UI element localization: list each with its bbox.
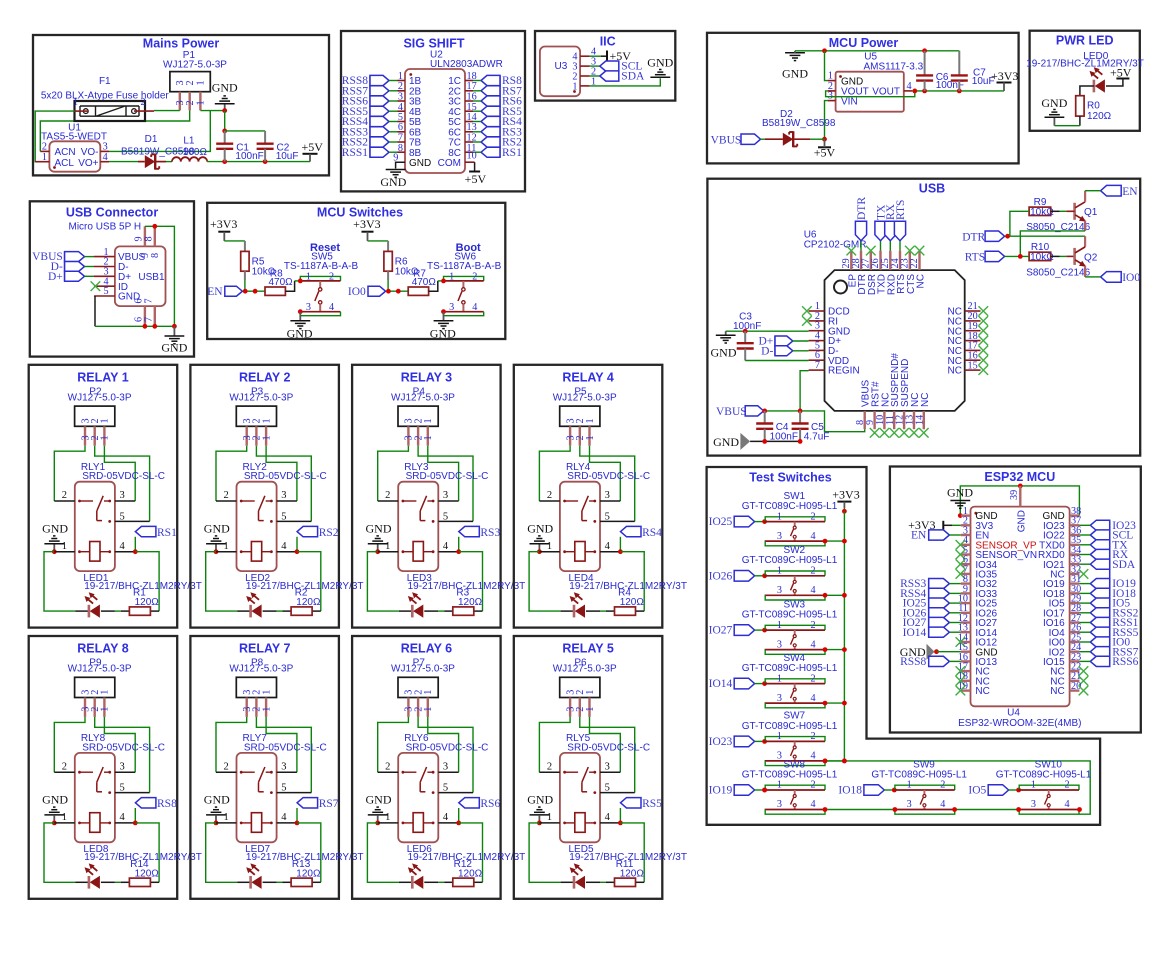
svg-text:R0: R0 — [1087, 101, 1100, 112]
svg-text:RS2: RS2 — [319, 527, 339, 539]
wire — [438, 280, 444, 282]
wire — [389, 141, 398, 143]
svg-text:GT-TC089C-H095-L1: GT-TC089C-H095-L1 — [742, 610, 838, 621]
section RELAY 4 — [514, 365, 663, 628]
junction — [222, 159, 227, 164]
wire — [295, 280, 301, 282]
svg-text:GND: GND — [947, 486, 973, 500]
section ESP32 MCU — [890, 467, 1141, 733]
wire — [793, 350, 809, 352]
wire — [94, 296, 96, 326]
svg-text:NC: NC — [1050, 686, 1064, 697]
wire — [1079, 534, 1090, 536]
svg-text:1: 1 — [547, 541, 552, 552]
svg-text:GT-TC089C-H095-L1: GT-TC089C-H095-L1 — [742, 721, 838, 732]
wire — [529, 823, 561, 882]
svg-text:SRD-05VDC-SL-C: SRD-05VDC-SL-C — [567, 471, 650, 482]
wire — [216, 446, 247, 501]
RLY5 contacts — [563, 771, 566, 774]
wire — [54, 500, 75, 502]
resistor R7 470 — [408, 287, 428, 295]
U3 pin 2 — [580, 75, 590, 77]
wire — [1085, 276, 1101, 278]
no-connect X — [956, 676, 966, 686]
wire — [224, 131, 226, 144]
svg-text:2: 2 — [385, 490, 390, 501]
svg-text:EN: EN — [207, 286, 223, 298]
P5 pin 3 — [569, 426, 571, 445]
svg-text:ACN: ACN — [55, 147, 76, 158]
connector USB1 — [115, 246, 166, 306]
net flag IO5 — [1090, 598, 1109, 608]
wire — [367, 823, 399, 882]
svg-text:RTS: RTS — [965, 252, 985, 264]
svg-text:2: 2 — [811, 566, 816, 577]
U6 pin 19 NC — [965, 330, 981, 332]
wire — [115, 881, 121, 883]
U2 pin 5 (5B) / net RSS4 — [370, 116, 389, 126]
wire — [620, 823, 644, 882]
wire — [429, 281, 438, 291]
wire — [761, 138, 766, 140]
wire — [539, 771, 560, 773]
wire — [924, 81, 926, 91]
wire — [206, 552, 238, 611]
net flag RSS5 — [1090, 627, 1109, 637]
wire — [1079, 641, 1090, 643]
junction — [823, 539, 828, 544]
wire — [795, 50, 959, 52]
wire — [424, 881, 438, 883]
wire — [600, 822, 620, 824]
wire — [458, 537, 460, 552]
section RELAY 3 — [352, 365, 501, 628]
junction — [958, 513, 963, 518]
U4 pin 2 3V3 — [961, 524, 971, 526]
svg-text:4: 4 — [811, 799, 816, 810]
wire — [54, 446, 85, 501]
no-connect X — [956, 569, 966, 579]
U4 pin 21 NC — [1070, 680, 1080, 682]
svg-text:2: 2 — [62, 490, 67, 501]
wire — [1079, 524, 1090, 526]
svg-text:4: 4 — [443, 541, 449, 552]
wire — [912, 90, 1004, 92]
svg-text:MCU Power: MCU Power — [829, 36, 899, 50]
junction — [743, 329, 748, 334]
U4 pin 12 IO27 — [961, 621, 971, 623]
svg-text:3: 3 — [120, 490, 125, 501]
USB1 pin 3 D+ — [94, 275, 115, 277]
junction — [396, 289, 401, 294]
wire — [843, 511, 845, 761]
net flag EN — [929, 530, 950, 540]
svg-text:2: 2 — [811, 620, 816, 631]
P3 pin 3 — [245, 426, 247, 445]
wire — [473, 100, 481, 102]
wire — [277, 520, 312, 522]
junction — [537, 549, 542, 554]
U6 pin 11 SUSPEND# — [893, 411, 895, 429]
wire — [389, 100, 398, 102]
no-connect X — [979, 306, 989, 316]
wire — [428, 717, 459, 772]
svg-text:RS3: RS3 — [480, 527, 500, 539]
svg-text:2: 2 — [811, 731, 816, 742]
svg-text:100nF: 100nF — [235, 151, 263, 162]
wire — [76, 610, 89, 612]
U6 pin 2 RI — [809, 320, 825, 322]
svg-text:2: 2 — [329, 271, 334, 282]
wire — [600, 771, 620, 773]
wire — [825, 540, 844, 542]
svg-text:4: 4 — [1065, 799, 1070, 810]
wire — [54, 717, 85, 772]
no-connect X — [802, 306, 812, 316]
no-connect X — [979, 336, 989, 346]
svg-text:1: 1 — [423, 418, 434, 423]
wire — [237, 881, 250, 883]
wire — [800, 371, 809, 411]
wire — [95, 446, 150, 522]
wire — [937, 651, 961, 653]
svg-text:4: 4 — [605, 812, 611, 823]
svg-text:GT-TC089C-H095-L1: GT-TC089C-H095-L1 — [742, 555, 838, 566]
wire — [399, 881, 412, 883]
wire — [438, 771, 458, 773]
U4 pin 5 SENSOR_VN — [961, 553, 971, 555]
wire — [765, 541, 825, 546]
svg-text:USB1: USB1 — [138, 272, 165, 283]
RLY8 contacts — [78, 771, 81, 774]
wire — [1060, 210, 1067, 212]
junction — [243, 289, 248, 294]
switch bottom bar — [1019, 809, 1079, 811]
svg-text:RS5: RS5 — [642, 798, 662, 810]
svg-text:IO14: IO14 — [709, 678, 733, 690]
U4 pin 30 IO18 — [1070, 592, 1080, 594]
section RELAY 8 — [29, 636, 178, 899]
svg-text:2: 2 — [140, 97, 145, 108]
svg-text:RTS: RTS — [895, 200, 907, 220]
U4 pin 28 IO17 — [1070, 612, 1080, 614]
wire — [825, 760, 844, 762]
U2 pin 12 (7C) / net RS2 — [481, 137, 500, 147]
net flag IO0 (usb) — [1101, 272, 1122, 283]
U4 pin 15 GND — [961, 651, 971, 653]
svg-text:4: 4 — [329, 302, 334, 313]
svg-text:4: 4 — [281, 812, 287, 823]
wire — [1020, 231, 1085, 257]
wire — [825, 809, 895, 811]
wire — [389, 80, 398, 82]
wire — [799, 411, 801, 424]
svg-text:1: 1 — [585, 707, 596, 712]
svg-text:2: 2 — [223, 761, 228, 772]
wire Q1 collector to EN — [1084, 191, 1086, 202]
svg-text:7: 7 — [815, 360, 820, 371]
wire — [44, 552, 76, 611]
svg-text:1: 1 — [423, 435, 434, 440]
svg-text:1: 1 — [261, 418, 272, 423]
U6 pin 29 EP — [850, 251, 852, 271]
U6 pin 21 NC — [965, 310, 981, 312]
svg-text:4: 4 — [811, 693, 816, 704]
net flag RS8 — [135, 798, 156, 808]
P9 pin 2 — [93, 698, 95, 717]
U1 pin stubs — [40, 150, 49, 152]
U6 pin 9 RST# — [873, 411, 875, 429]
supply +5V (sig shift) — [469, 171, 480, 173]
wire — [54, 771, 75, 773]
section USB — [707, 179, 1140, 456]
no-connect X — [890, 428, 900, 438]
wire — [283, 881, 292, 883]
wire — [750, 440, 800, 442]
wire — [590, 75, 600, 77]
svg-text:3: 3 — [1031, 799, 1036, 810]
junction — [842, 759, 847, 764]
no-connect X — [905, 246, 915, 256]
wire — [561, 881, 574, 883]
wire — [474, 162, 476, 171]
wire Q2 emitter to IO0 — [1084, 266, 1086, 277]
P1 pin 3 — [179, 92, 181, 111]
U6 pin 16 NC — [965, 359, 981, 361]
wire — [1080, 86, 1094, 96]
wire — [277, 822, 297, 824]
wire — [101, 881, 115, 883]
junction — [922, 48, 927, 53]
U4 pin 34 RXD0 — [1070, 553, 1080, 555]
wire — [765, 785, 825, 790]
wire — [134, 537, 136, 552]
svg-text:GND: GND — [380, 175, 406, 189]
P2 pin 3 — [84, 426, 86, 445]
svg-text:GND: GND — [1016, 510, 1027, 532]
svg-text:WJ127-5.0-3P: WJ127-5.0-3P — [68, 664, 132, 675]
net flag chain right (esp32) — [1109, 521, 1111, 666]
wire — [1079, 602, 1090, 604]
svg-text:1: 1 — [777, 731, 782, 742]
P9 pin 3 — [84, 698, 86, 717]
wire — [600, 610, 606, 612]
wire — [561, 610, 574, 612]
svg-text:10uF: 10uF — [276, 151, 299, 162]
U2 pin 13 (6C) / net RS3 — [481, 127, 500, 137]
svg-text:EN: EN — [911, 530, 927, 542]
wire — [244, 271, 246, 280]
U6 pin 22 NC — [918, 251, 920, 271]
wire — [949, 660, 960, 662]
wire — [424, 610, 438, 612]
svg-text:SRD-05VDC-SL-C: SRD-05VDC-SL-C — [82, 471, 165, 482]
RLY6 contacts — [402, 771, 405, 774]
U2 pin 15 (4C) / net RS5 — [481, 106, 500, 116]
svg-text:3: 3 — [605, 490, 610, 501]
wire — [418, 446, 473, 522]
svg-text:SRD-05VDC-SL-C: SRD-05VDC-SL-C — [244, 742, 327, 753]
no-connect X — [979, 326, 989, 336]
U4 pin 4 SENSOR_VP — [961, 544, 971, 546]
wire — [264, 149, 266, 162]
junction — [295, 549, 300, 554]
svg-text:RELAY 7: RELAY 7 — [239, 642, 290, 656]
wire — [473, 121, 481, 123]
P5 pin 2 — [579, 426, 581, 445]
wire — [619, 537, 621, 552]
P2 pin 1 — [103, 426, 105, 445]
junction — [762, 439, 767, 444]
U4 pin 35 TXD0 — [1070, 544, 1080, 546]
U6 pin 12 SUSPEND — [903, 411, 905, 429]
no-connect X — [915, 246, 925, 256]
wire — [378, 717, 409, 772]
P6 pin 2 — [579, 698, 581, 717]
U6 pin 15 NC — [965, 369, 981, 371]
svg-text:4: 4 — [120, 541, 126, 552]
svg-text:SIG SHIFT: SIG SHIFT — [403, 36, 464, 50]
junction — [762, 788, 767, 793]
wire — [600, 520, 635, 522]
junction — [52, 549, 57, 554]
svg-text:GND: GND — [42, 521, 68, 535]
svg-text:1: 1 — [100, 418, 111, 423]
no-connect X — [979, 346, 989, 356]
wire — [949, 583, 960, 585]
wire — [765, 571, 825, 576]
U4 pin 1 GND — [961, 514, 971, 516]
no-connect X — [880, 428, 890, 438]
P8 pin 2 — [255, 698, 257, 717]
svg-text:NC: NC — [948, 366, 962, 377]
wire — [590, 78, 661, 86]
USB1 pin 2 D- — [94, 266, 115, 268]
wire — [389, 90, 398, 92]
svg-text:DTR: DTR — [962, 231, 985, 243]
svg-text:RELAY 1: RELAY 1 — [77, 371, 128, 385]
switch bottom bar — [765, 809, 825, 811]
wire — [949, 631, 960, 633]
wire — [755, 575, 766, 577]
no-connect X — [866, 246, 876, 256]
wire — [85, 256, 95, 258]
wire — [40, 110, 189, 151]
junction — [298, 309, 303, 314]
wire — [1079, 544, 1090, 546]
ground GND (usb c3) — [725, 331, 727, 335]
wire — [378, 551, 399, 553]
wire — [1079, 660, 1090, 662]
svg-text:WJ127-5.0-3P: WJ127-5.0-3P — [229, 664, 293, 675]
svg-text:RS8: RS8 — [157, 798, 177, 810]
svg-text:GND: GND — [366, 793, 392, 807]
svg-text:3: 3 — [777, 799, 782, 810]
svg-text:1: 1 — [1031, 780, 1036, 791]
U6 pin 26 TXD — [879, 251, 881, 271]
U2 pin 16 (3C) / net RS6 — [481, 96, 500, 106]
wire — [473, 110, 481, 112]
junction — [263, 159, 268, 164]
svg-text:SRD-05VDC-SL-C: SRD-05VDC-SL-C — [406, 742, 489, 753]
plates — [737, 342, 754, 344]
junction — [295, 821, 300, 826]
wire — [590, 446, 621, 501]
svg-text:GND: GND — [42, 793, 68, 807]
wire — [580, 717, 635, 793]
junction — [762, 573, 767, 578]
svg-text:4.7uF: 4.7uF — [804, 432, 830, 443]
wire — [949, 622, 960, 624]
wire — [600, 881, 606, 883]
wire — [755, 683, 766, 685]
wire — [225, 130, 265, 132]
wire — [1079, 631, 1090, 633]
wire — [960, 486, 1079, 516]
wire — [843, 508, 845, 511]
wire — [1079, 583, 1090, 585]
net flag D+ — [774, 336, 776, 356]
RLY3 contacts — [402, 500, 405, 503]
wire — [952, 524, 961, 526]
svg-text:ESP32-WROOM-32E(4MB): ESP32-WROOM-32E(4MB) — [958, 718, 1081, 729]
net flag RSS4 — [929, 588, 950, 598]
svg-text:GND: GND — [366, 521, 392, 535]
wire — [296, 537, 298, 552]
wire — [244, 280, 246, 291]
wire — [154, 110, 180, 112]
plates — [257, 142, 274, 144]
svg-text:GND: GND — [713, 435, 739, 449]
junction — [1016, 788, 1021, 793]
wire — [115, 610, 121, 612]
no-connect X — [909, 428, 919, 438]
no-connect X — [956, 666, 966, 676]
net flag RSS3 — [929, 579, 950, 589]
svg-text:1: 1 — [223, 541, 228, 552]
svg-text:REGIN: REGIN — [828, 366, 860, 377]
wire — [121, 610, 130, 612]
wire — [765, 703, 825, 708]
section RELAY 2 — [190, 365, 339, 628]
P2 pin 2 — [93, 426, 95, 445]
no-connect X — [847, 246, 857, 256]
svg-text:1: 1 — [62, 541, 67, 552]
svg-text:1: 1 — [423, 707, 434, 712]
switch bottom bar — [894, 809, 954, 811]
svg-text:GT-TC089C-H095-L1: GT-TC089C-H095-L1 — [996, 769, 1092, 780]
svg-text:S8050_C2146: S8050_C2146 — [1026, 268, 1090, 279]
net flag RSS2 — [1090, 608, 1109, 618]
svg-text:GND: GND — [409, 158, 431, 169]
P4 pin 1 — [427, 426, 429, 445]
wire — [115, 500, 135, 502]
net flag RX — [1090, 549, 1109, 559]
junction — [762, 681, 767, 686]
svg-text:2: 2 — [185, 80, 196, 85]
no-connect X — [979, 355, 989, 365]
svg-text:VBUS: VBUS — [711, 134, 742, 146]
junction — [952, 807, 957, 812]
svg-text:U4: U4 — [1007, 707, 1020, 718]
wire — [949, 602, 960, 604]
wire — [539, 822, 560, 824]
junction — [253, 289, 258, 294]
junction — [842, 539, 847, 544]
P4 pin 2 — [417, 426, 419, 445]
svg-text:IO25: IO25 — [709, 516, 733, 528]
junction — [762, 788, 767, 793]
